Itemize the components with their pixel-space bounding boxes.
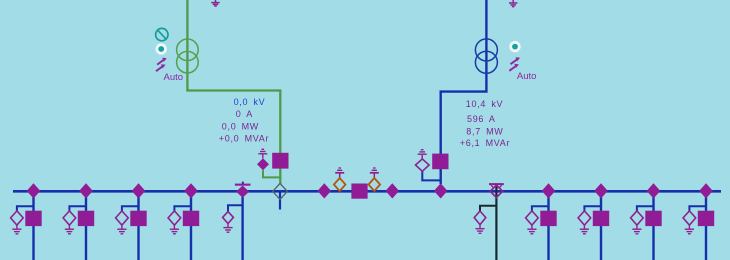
svg-text:0,0 MW: 0,0 MW bbox=[222, 122, 259, 132]
svg-text:Auto: Auto bbox=[164, 72, 184, 83]
svg-text:Auto: Auto bbox=[517, 71, 537, 82]
svg-text:0,0 kV: 0,0 kV bbox=[234, 97, 266, 107]
svg-text:+6,1 MVAr: +6,1 MVAr bbox=[460, 138, 510, 148]
svg-text:0 A: 0 A bbox=[236, 109, 253, 119]
svg-text:596 A: 596 A bbox=[467, 114, 496, 124]
svg-text:8,7 MW: 8,7 MW bbox=[466, 126, 503, 136]
svg-text:+0,0 MVAr: +0,0 MVAr bbox=[219, 133, 269, 143]
svg-text:10,4 kV: 10,4 kV bbox=[466, 99, 503, 109]
